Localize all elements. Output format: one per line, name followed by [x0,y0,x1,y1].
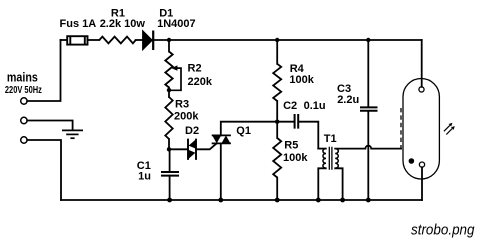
svg-text:strobo.png: strobo.png [411,222,475,239]
wire R4 top lead [276,40,278,64]
wire T1 primary bottom to rail [318,168,326,200]
svg-text:220k: 220k [188,76,213,88]
wire R4 bottom lead [276,101,278,122]
wire C3 bottom lead [367,111,369,200]
svg-text:T1: T1 [324,133,337,145]
wire Q1 cathode down to bottom rail [220,143,222,200]
svg-text:1N4007: 1N4007 [157,18,196,30]
wire D2 right lead and Q1 gate [197,143,217,149]
wire tube anode from rail [421,40,423,87]
svg-text:C3: C3 [337,83,351,95]
diode D1 [143,31,154,51]
wire R2 to R3 node [168,88,170,98]
svg-text:0.1u: 0.1u [304,100,326,112]
svg-text:R2: R2 [188,63,202,75]
wire left vertical from rail to mains terminal 1 [27,40,60,101]
mains terminal 2 [21,117,27,123]
svg-text:1u: 1u [138,171,151,183]
svg-text:Q1: Q1 [236,125,251,137]
mains terminal 1 [21,98,27,104]
fuse Fus 1A [67,36,87,44]
triac Q1 [212,135,231,143]
wire R2 branch top [168,40,170,52]
wire D2 left lead [169,148,188,150]
flash tube envelope [403,79,439,179]
svg-text:220V 50Hz: 220V 50Hz [5,85,42,96]
flash tube cathode terminal [419,162,424,167]
wire mains terminal 3 down to bottom rail [27,140,61,200]
svg-text:R4: R4 [290,63,305,75]
wire C1 bottom lead [169,176,171,200]
svg-text:R3: R3 [175,99,189,111]
capacitor C1 [161,172,179,176]
resistor R4 [273,64,281,101]
wire D1 to tube corner [153,39,422,41]
capacitor C2 [295,114,299,129]
flash tube trigger electrode (dashed) [400,108,402,148]
wire C3 top lead [367,40,369,107]
light emission arrows [444,123,455,135]
svg-text:mains: mains [7,70,38,85]
resistor R5 [273,138,281,178]
svg-text:200k: 200k [174,111,199,123]
wire C1 top lead [169,149,171,171]
resistor R2 (rheostat) [165,52,181,91]
wire C2 left lead [277,121,293,123]
wire R5 top lead [276,122,278,138]
resistor R3 [165,97,172,139]
resistor R1 [99,37,135,44]
wire R3 to D2 node [168,139,170,149]
mains terminal 3 [21,137,27,143]
wire T1 primary top [318,148,326,150]
capacitor C3 [360,107,378,110]
wire trigger from T1 secondary with hop over C3 lead [335,146,401,149]
svg-text:Fus 1A: Fus 1A [60,18,97,30]
wire R1 to D1 [136,39,143,41]
node junction dots [167,38,371,203]
wire bottom rail [61,199,422,201]
wire tube cathode to bottom rail [421,167,423,200]
wire R5 bottom lead [276,178,278,201]
flash tube gas dot [409,158,415,164]
wire T1 secondary bottom to rail [335,168,342,200]
ground [62,130,83,138]
svg-text:2.2k 10w: 2.2k 10w [100,18,146,30]
wire Q1 anode up and across to R4 node [221,122,277,136]
wire top rail left segment [61,39,68,41]
wire mains terminal 2 to ground [27,121,72,130]
transformer T1 [323,147,338,170]
wire fuse to R1 [88,39,100,41]
wire C2 right lead down to T1 primary [299,122,318,149]
flash tube anode terminal [419,87,424,92]
svg-text:D2: D2 [185,125,199,137]
diac D2 [188,139,196,160]
svg-text:C2: C2 [283,100,297,112]
svg-text:2.2u: 2.2u [337,94,359,106]
svg-text:100k: 100k [289,74,314,86]
svg-text:100k: 100k [283,152,308,164]
svg-text:R5: R5 [284,139,298,151]
